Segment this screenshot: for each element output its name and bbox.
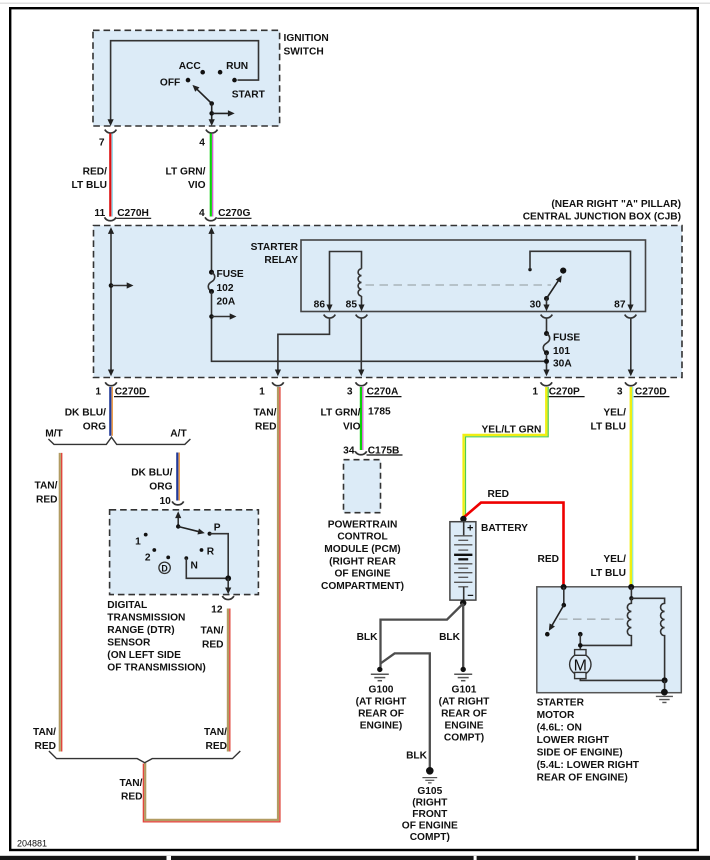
connector 3 C270D [625, 382, 637, 385]
svg-text:C270P: C270P [549, 386, 580, 397]
wire TAN/RED from pin 12 [227, 609, 229, 752]
svg-text:TAN/: TAN/ [204, 727, 227, 738]
svg-text:−: − [467, 590, 473, 602]
node battery negative [460, 600, 466, 606]
bottom join brace [49, 751, 240, 763]
node 1 [144, 533, 148, 537]
wire: fuse 101 to C270P [546, 353, 548, 374]
ground: starter case [661, 689, 668, 696]
svg-text:SIDE OF ENGINE): SIDE OF ENGINE) [537, 748, 623, 759]
node ACC [200, 70, 205, 75]
svg-text:CONTROL: CONTROL [337, 532, 387, 543]
relay contact to pin 87 [528, 268, 531, 271]
svg-text:ORG: ORG [149, 482, 172, 493]
svg-text:87: 87 [614, 300, 626, 311]
svg-text:RED: RED [488, 489, 510, 500]
svg-text:RED: RED [36, 495, 58, 506]
connector 3 C270A [356, 382, 368, 385]
svg-text:M/T: M/T [45, 428, 63, 439]
svg-text:DK BLU/: DK BLU/ [131, 468, 172, 479]
svg-text:FUSE: FUSE [217, 269, 244, 280]
connector 1 C270D [105, 382, 117, 385]
svg-text:(5.4L: LOWER RIGHT: (5.4L: LOWER RIGHT [537, 760, 640, 771]
ground G100 [377, 667, 382, 672]
node P [208, 532, 212, 536]
svg-text:(AT RIGHT: (AT RIGHT [439, 697, 491, 708]
connector pin 4 [206, 130, 218, 133]
node: red cable entry [561, 584, 567, 590]
wire: faint top remnant line [0, 2, 710, 4]
svg-text:30: 30 [530, 300, 542, 311]
connector 1 C270P [541, 382, 553, 385]
svg-text:COMPT): COMPT) [444, 733, 484, 744]
svg-text:D: D [161, 563, 167, 573]
PCM box [344, 460, 381, 513]
svg-text:C270H: C270H [117, 208, 149, 219]
wire RED/LT BLU ignition to C270H [109, 134, 111, 217]
svg-text:REAR OF ENGINE): REAR OF ENGINE) [537, 773, 628, 784]
svg-text:BLK: BLK [439, 632, 461, 643]
svg-text:N: N [191, 561, 198, 572]
wire DK BLU/ORG A/T branch [176, 453, 178, 501]
svg-text:BLK: BLK [406, 751, 428, 762]
node D [166, 556, 170, 560]
node: fuse junction [544, 359, 549, 364]
svg-text:TAN/: TAN/ [200, 626, 223, 637]
svg-text:DIGITAL: DIGITAL [107, 600, 147, 611]
svg-text:M: M [574, 657, 587, 674]
svg-text:101: 101 [553, 346, 570, 357]
fuse 101 30A [544, 331, 549, 336]
connector pin 7 [105, 130, 117, 133]
svg-text:4: 4 [199, 208, 205, 219]
connector 1 (tan/red) [272, 382, 284, 385]
svg-text:LT BLU: LT BLU [591, 568, 626, 579]
starter motor box [537, 587, 682, 693]
svg-text:86: 86 [314, 300, 326, 311]
svg-text:TAN/: TAN/ [33, 727, 56, 738]
svg-text:85: 85 [346, 300, 358, 311]
svg-text:VIO: VIO [343, 422, 361, 433]
svg-text:(RIGHT REAR: (RIGHT REAR [329, 557, 396, 568]
svg-text:POWERTRAIN: POWERTRAIN [328, 520, 398, 531]
relay coil circuit pins 86-85 [330, 252, 362, 310]
wire BLK to G101 [462, 604, 464, 667]
DTR wiper blade [178, 527, 201, 533]
svg-text:11: 11 [94, 208, 105, 219]
svg-text:G105: G105 [417, 786, 442, 797]
svg-text:ENGINE): ENGINE) [360, 721, 402, 732]
wire: pin 87 to C270D [630, 319, 632, 374]
wire YEL/LT BLU from C270D [630, 387, 632, 586]
svg-text:COMPT): COMPT) [410, 832, 450, 843]
svg-text:LT GRN/: LT GRN/ [321, 408, 361, 419]
wire YEL/LT GRN from C270P [464, 387, 547, 517]
svg-text:34: 34 [343, 445, 355, 456]
svg-text:1: 1 [532, 386, 538, 397]
svg-text:START: START [232, 89, 266, 100]
svg-text:OF ENGINE: OF ENGINE [402, 821, 458, 832]
solenoid switch [563, 587, 565, 605]
svg-text:OFF: OFF [160, 78, 180, 89]
svg-text:FRONT: FRONT [412, 809, 448, 820]
svg-text:A/T: A/T [170, 428, 187, 439]
svg-text:YEL/: YEL/ [603, 554, 626, 565]
node battery positive [460, 516, 466, 522]
svg-text:C270D: C270D [635, 386, 667, 397]
motor M1 [570, 654, 591, 675]
svg-text:IGNITION: IGNITION [284, 33, 329, 44]
node 2 [152, 548, 156, 552]
wire: pin 85 to C270A [360, 319, 362, 374]
svg-text:LOWER RIGHT: LOWER RIGHT [537, 735, 610, 746]
svg-text:RUN: RUN [226, 61, 248, 72]
svg-text:102: 102 [217, 283, 234, 294]
svg-text:BATTERY: BATTERY [481, 523, 528, 534]
wire: pin 30 to fuse 101 [546, 319, 548, 333]
svg-text:RELAY: RELAY [264, 255, 298, 266]
svg-text:RED: RED [202, 640, 224, 651]
ground G101 [461, 667, 466, 672]
solenoid hold-in winding [631, 598, 664, 680]
node: left branch junction [109, 283, 114, 288]
wire RED battery positive cable [464, 503, 564, 586]
wire: fuse 102 output [212, 292, 546, 362]
wire TAN/RED M/T branch [59, 453, 61, 752]
svg-text:MOTOR: MOTOR [537, 710, 575, 721]
svg-text:TAN/: TAN/ [253, 408, 276, 419]
svg-text:LT GRN/: LT GRN/ [166, 167, 206, 178]
wire: CJB left feed [110, 229, 112, 374]
svg-text:RED: RED [121, 792, 143, 803]
svg-text:ACC: ACC [179, 61, 202, 72]
node R [200, 548, 204, 552]
svg-text:1: 1 [259, 386, 265, 397]
svg-text:204881: 204881 [17, 839, 47, 849]
svg-text:10: 10 [159, 496, 171, 507]
node N [184, 556, 188, 560]
node: motor feed contact [578, 632, 583, 637]
svg-text:LT BLU: LT BLU [72, 180, 107, 191]
svg-text:TAN/: TAN/ [119, 778, 142, 789]
wire DK BLU/ORG from C270D [109, 387, 111, 436]
svg-text:3: 3 [617, 386, 623, 397]
svg-text:LT BLU: LT BLU [591, 422, 626, 433]
svg-text:G100: G100 [369, 685, 394, 696]
svg-text:RED/: RED/ [83, 167, 108, 178]
M/T A/T split brace [48, 437, 190, 444]
svg-text:C270A: C270A [367, 386, 399, 397]
relay actuation dashed link [366, 284, 552, 286]
wire: branch arrow right [212, 112, 231, 114]
central junction box CJB [94, 226, 683, 378]
fuse 102 20A [209, 270, 214, 275]
svg-text:CENTRAL JUNCTION BOX (CJB): CENTRAL JUNCTION BOX (CJB) [523, 212, 681, 223]
svg-text:RED: RED [205, 741, 227, 752]
wire: P contact to pin 12 [210, 534, 229, 579]
wire BLK to G105 [381, 653, 430, 767]
svg-text:1: 1 [135, 537, 141, 548]
svg-text:(RIGHT: (RIGHT [412, 798, 448, 809]
svg-text:RED: RED [255, 422, 277, 433]
DTR sensor box [110, 510, 259, 595]
svg-text:BLK: BLK [357, 632, 379, 643]
svg-text:RED: RED [537, 554, 559, 565]
battery [450, 522, 476, 600]
svg-text:1785: 1785 [368, 407, 391, 418]
node START [232, 78, 237, 83]
svg-text:SENSOR: SENSOR [107, 638, 151, 649]
bottom next-page bar [0, 856, 710, 860]
svg-text:C270D: C270D [115, 386, 147, 397]
svg-text:DK BLU/: DK BLU/ [65, 408, 106, 419]
svg-text:MODULE (PCM): MODULE (PCM) [324, 544, 400, 555]
wire: fuse 102 feed [211, 229, 213, 271]
svg-text:TRANSMISSION: TRANSMISSION [107, 613, 185, 624]
relay switch pin 30 [544, 296, 549, 301]
svg-text:(ON LEFT SIDE: (ON LEFT SIDE [107, 650, 181, 661]
svg-text:20A: 20A [217, 297, 236, 308]
solenoid pull-in winding [580, 598, 631, 645]
wire LT GRN/VIO to PCM [360, 387, 362, 450]
relay coil [358, 269, 361, 296]
svg-text:STARTER: STARTER [537, 698, 585, 709]
svg-text:SWITCH: SWITCH [284, 47, 324, 58]
svg-text:REAR OF: REAR OF [358, 709, 404, 720]
svg-text:VIO: VIO [188, 180, 206, 191]
svg-text:YEL/LT GRN: YEL/LT GRN [482, 425, 542, 436]
svg-text:1: 1 [95, 386, 101, 397]
svg-text:12: 12 [211, 605, 223, 616]
svg-text:30A: 30A [553, 359, 572, 370]
svg-text:(4.6L: ON: (4.6L: ON [537, 723, 582, 734]
node: yel/lt blu entry [628, 584, 634, 590]
switch wiper blade [196, 88, 212, 104]
svg-text:RED: RED [34, 741, 56, 752]
node OFF [186, 78, 191, 83]
wire: ignition feed internal [111, 41, 259, 124]
relay pin connectors [324, 315, 336, 318]
svg-text:3: 3 [347, 386, 353, 397]
svg-text:FUSE: FUSE [553, 333, 580, 344]
node: pull-in winding tee [578, 643, 583, 648]
svg-text:RANGE (DTR): RANGE (DTR) [107, 625, 174, 636]
solenoid dashed link [559, 618, 627, 620]
node RUN [218, 70, 223, 75]
svg-text:P: P [214, 523, 221, 534]
svg-text:ENGINE: ENGINE [444, 721, 483, 732]
wire TAN/RED from connector 1 down [145, 387, 278, 820]
ground G105 [426, 767, 434, 775]
svg-text:OF TRANSMISSION): OF TRANSMISSION) [107, 663, 205, 674]
svg-text:2: 2 [145, 553, 151, 564]
svg-text:+: + [467, 523, 473, 535]
svg-text:STARTER: STARTER [251, 242, 299, 253]
svg-text:YEL/: YEL/ [603, 408, 626, 419]
wire LT GRN/VIO ignition to C270G [210, 134, 212, 217]
svg-text:R: R [207, 547, 215, 558]
svg-text:G101: G101 [452, 685, 477, 696]
svg-text:OF ENGINE: OF ENGINE [334, 569, 390, 580]
connector pin 12 [222, 596, 234, 599]
svg-text:(NEAR RIGHT "A" PILLAR): (NEAR RIGHT "A" PILLAR) [551, 199, 681, 210]
svg-text:7: 7 [99, 137, 105, 148]
svg-text:TAN/: TAN/ [34, 481, 57, 492]
wire BLK to G100 [381, 604, 464, 668]
svg-text:4: 4 [199, 137, 205, 148]
ignition switch box [93, 30, 280, 126]
wire: pin 86 to connector 1 [278, 319, 330, 374]
wire: motor to ground [580, 679, 664, 681]
starter relay box [301, 240, 646, 312]
svg-text:REAR OF: REAR OF [441, 709, 487, 720]
svg-text:C270G: C270G [218, 208, 250, 219]
svg-text:COMPARTMENT): COMPARTMENT) [321, 581, 404, 592]
svg-text:(AT RIGHT: (AT RIGHT [356, 697, 408, 708]
svg-text:ORG: ORG [83, 422, 106, 433]
wire: DTR wiper feed [177, 514, 179, 527]
wire: wiper output [211, 104, 213, 124]
